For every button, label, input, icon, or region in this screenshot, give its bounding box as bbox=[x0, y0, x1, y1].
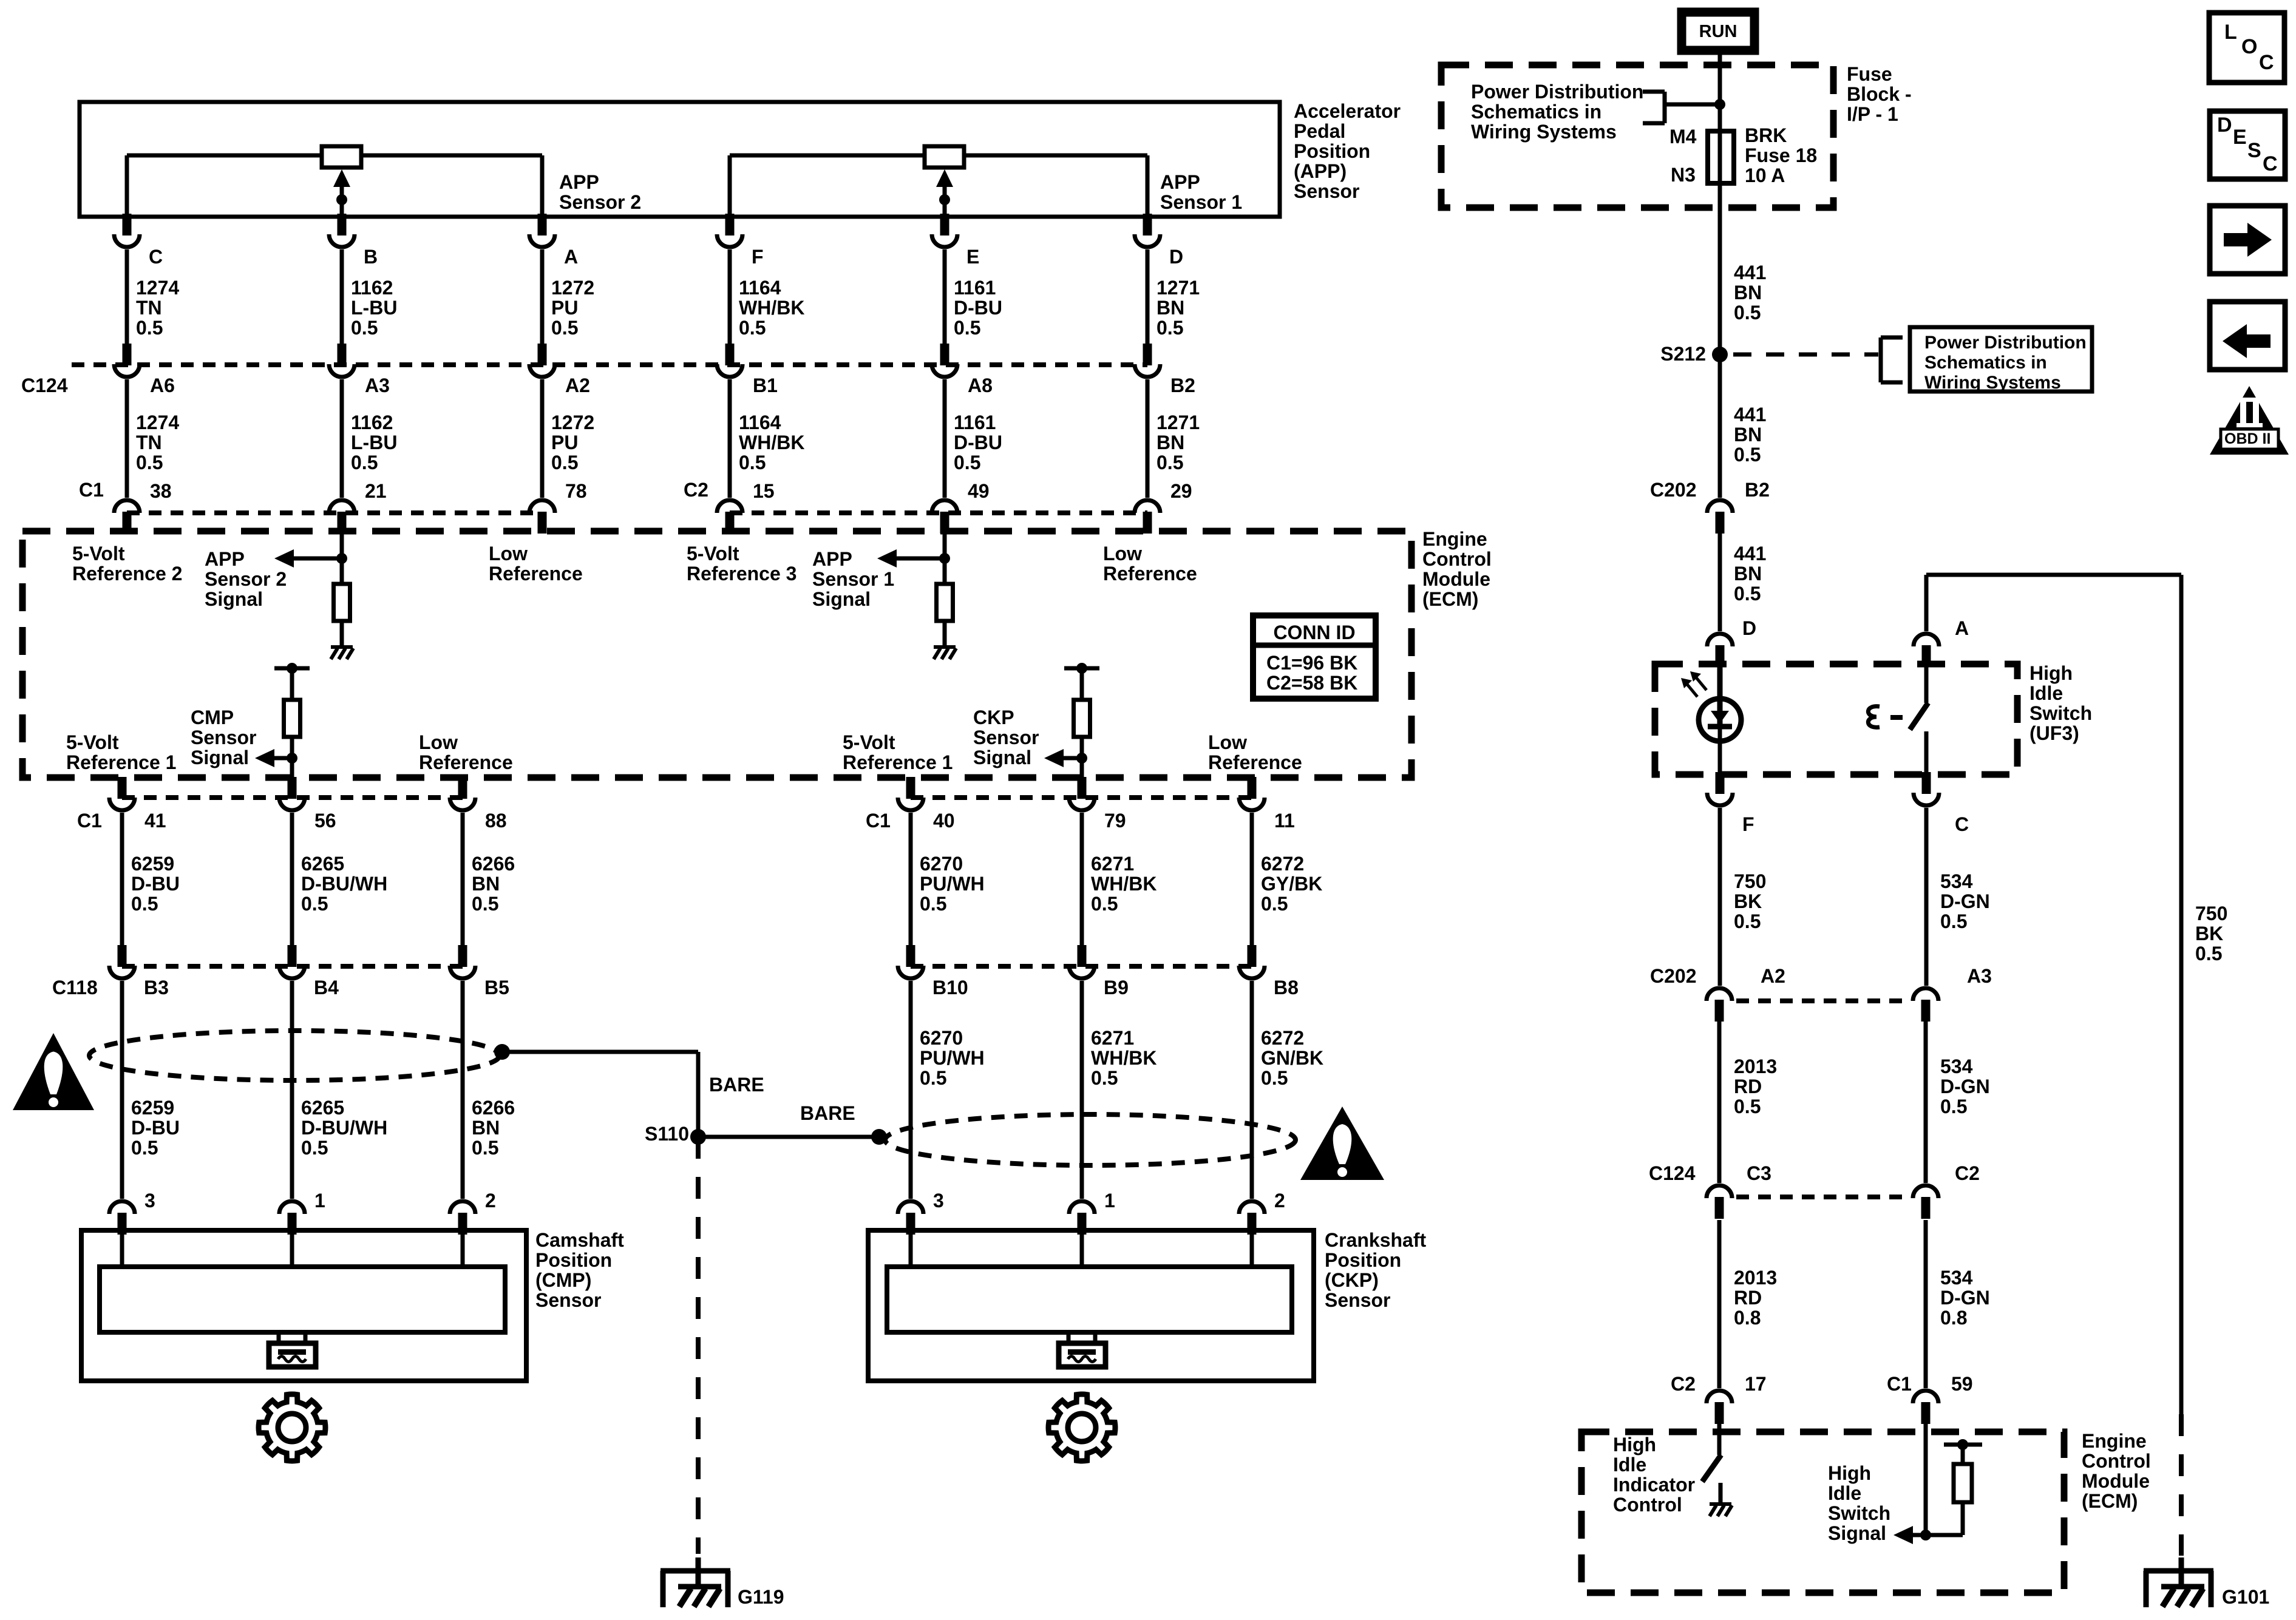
svg-text:49: 49 bbox=[968, 480, 990, 502]
connector C124 pin A3 bbox=[338, 344, 347, 365]
svg-text:21: 21 bbox=[365, 480, 387, 502]
svg-text:29: 29 bbox=[1170, 480, 1192, 502]
svg-text:D-GN: D-GN bbox=[1940, 1076, 1990, 1097]
wire bbox=[120, 1230, 124, 1267]
svg-text:B9: B9 bbox=[1104, 977, 1129, 998]
svg-text:GN/BK: GN/BK bbox=[1261, 1047, 1323, 1069]
connector APP pin D bbox=[1143, 215, 1152, 228]
wire bbox=[461, 813, 465, 945]
svg-text:C: C bbox=[2263, 152, 2278, 175]
connector C1/C2 pin 49 bbox=[940, 512, 949, 534]
connector APP pin C bbox=[123, 215, 132, 228]
svg-text:1164: 1164 bbox=[739, 412, 781, 433]
connector high idle switch pin D bbox=[1716, 645, 1725, 667]
connector CKP pin 1 bbox=[1078, 1213, 1087, 1235]
svg-text:5-Volt: 5-Volt bbox=[687, 543, 739, 564]
svg-text:D-GN: D-GN bbox=[1940, 890, 1990, 912]
svg-text:1162: 1162 bbox=[351, 412, 393, 433]
svg-text:F: F bbox=[1742, 813, 1754, 835]
svg-text:GY/BK: GY/BK bbox=[1261, 873, 1322, 895]
wire bbox=[461, 1230, 465, 1267]
svg-text:Crankshaft: Crankshaft bbox=[1325, 1229, 1427, 1251]
wire bbox=[290, 981, 294, 1199]
svg-text:0.8: 0.8 bbox=[1940, 1307, 1967, 1329]
wire bbox=[1146, 249, 1150, 344]
svg-text:1271: 1271 bbox=[1156, 412, 1200, 433]
wire 750 BK to G101 bbox=[2179, 575, 2184, 1414]
wire bbox=[1924, 1414, 1928, 1535]
svg-text:WH/BK: WH/BK bbox=[739, 432, 804, 453]
bracket bbox=[1879, 337, 1883, 382]
svg-text:PU: PU bbox=[551, 297, 578, 319]
connector C124 pin B1 bbox=[725, 344, 735, 365]
high idle switch signal pull-up bbox=[1944, 1443, 1982, 1447]
svg-text:0.5: 0.5 bbox=[1734, 1096, 1761, 1117]
wire bbox=[1926, 573, 2181, 577]
wire bbox=[1718, 808, 1722, 986]
svg-text:3: 3 bbox=[144, 1190, 155, 1212]
svg-text:1274: 1274 bbox=[136, 412, 179, 433]
connector line C202 bbox=[1736, 998, 1909, 1003]
svg-text:BN: BN bbox=[1734, 424, 1762, 446]
svg-text:534: 534 bbox=[1940, 1056, 1973, 1077]
connector line C118 (CKP) bbox=[911, 964, 1252, 969]
svg-text:Idle: Idle bbox=[1828, 1482, 1861, 1504]
svg-text:TN: TN bbox=[136, 432, 162, 453]
svg-text:A8: A8 bbox=[968, 374, 993, 396]
svg-text:C202: C202 bbox=[1650, 965, 1697, 987]
svg-text:1: 1 bbox=[1104, 1190, 1115, 1212]
connector C118 pin B8 bbox=[1248, 945, 1257, 967]
svg-text:(APP): (APP) bbox=[1294, 160, 1347, 182]
svg-text:3: 3 bbox=[933, 1190, 944, 1212]
fuse BRK Fuse 18 10A bbox=[1708, 131, 1734, 183]
ground bbox=[934, 645, 956, 649]
svg-text:B3: B3 bbox=[144, 977, 169, 998]
svg-text:A: A bbox=[564, 246, 578, 268]
svg-text:WH/BK: WH/BK bbox=[1091, 873, 1156, 895]
LED arrows bbox=[1681, 678, 1692, 688]
svg-text:750: 750 bbox=[1734, 870, 1766, 892]
svg-text:Signal: Signal bbox=[812, 588, 871, 610]
wire bbox=[290, 813, 294, 945]
svg-text:6270: 6270 bbox=[920, 853, 963, 875]
svg-text:1161: 1161 bbox=[954, 412, 996, 433]
CMP sensor signal arrow bbox=[255, 749, 274, 767]
svg-text:Control: Control bbox=[1422, 548, 1492, 570]
svg-text:G119: G119 bbox=[738, 1586, 784, 1608]
svg-text:B8: B8 bbox=[1274, 977, 1299, 998]
svg-text:E: E bbox=[966, 246, 979, 268]
wire bbox=[1717, 1220, 1722, 1388]
svg-text:S: S bbox=[2247, 139, 2261, 162]
connector APP pin E bbox=[940, 215, 949, 228]
resistor bbox=[1954, 1464, 1972, 1502]
connector C1/C2 pin 15 bbox=[725, 512, 735, 534]
svg-text:38: 38 bbox=[150, 480, 172, 502]
svg-text:Position: Position bbox=[1325, 1249, 1401, 1271]
svg-text:1272: 1272 bbox=[551, 277, 594, 299]
svg-text:Module: Module bbox=[1422, 568, 1490, 590]
svg-text:1164: 1164 bbox=[739, 277, 781, 299]
svg-text:Power Distribution: Power Distribution bbox=[1471, 81, 1643, 103]
svg-text:F: F bbox=[752, 246, 764, 268]
icon DESC bbox=[2210, 111, 2285, 179]
svg-text:0.5: 0.5 bbox=[551, 317, 578, 339]
svg-text:Indicator: Indicator bbox=[1613, 1474, 1695, 1496]
wire bbox=[1665, 103, 1720, 107]
connector CKP pin 3 bbox=[906, 1213, 915, 1235]
svg-text:Low: Low bbox=[489, 543, 528, 564]
svg-text:17: 17 bbox=[1745, 1373, 1767, 1395]
svg-text:TN: TN bbox=[136, 297, 162, 319]
camshaft position sensor box bbox=[81, 1230, 526, 1381]
svg-text:BARE: BARE bbox=[709, 1074, 764, 1096]
wire bbox=[1924, 1022, 1928, 1183]
svg-text:Signal: Signal bbox=[191, 747, 249, 768]
svg-text:C: C bbox=[1955, 813, 1969, 835]
svg-text:C2=58 BK: C2=58 BK bbox=[1266, 672, 1357, 694]
wire bbox=[698, 1135, 879, 1139]
svg-text:6265: 6265 bbox=[301, 853, 344, 875]
svg-text:0.5: 0.5 bbox=[131, 1137, 158, 1159]
svg-text:PU: PU bbox=[551, 432, 578, 453]
wire (dashed drop to G119) bbox=[696, 1137, 701, 1554]
svg-text:0.5: 0.5 bbox=[1156, 317, 1183, 339]
connector C118 pin B4 bbox=[288, 945, 297, 967]
svg-text:Schematics in: Schematics in bbox=[1471, 101, 1601, 123]
wire bbox=[125, 379, 129, 498]
svg-text:Sensor: Sensor bbox=[191, 727, 256, 748]
svg-text:Reference: Reference bbox=[1208, 751, 1302, 773]
connector C1/C2 pin 78 bbox=[538, 512, 547, 534]
shield ellipse (CMP) bbox=[89, 1031, 500, 1080]
connector CKP pin 2 bbox=[1248, 1213, 1257, 1235]
wire bbox=[340, 531, 344, 584]
svg-text:Engine: Engine bbox=[2082, 1430, 2147, 1452]
ground bbox=[1719, 1483, 1723, 1503]
svg-text:Sensor 2: Sensor 2 bbox=[205, 568, 287, 590]
svg-text:40: 40 bbox=[933, 810, 955, 832]
svg-text:0.5: 0.5 bbox=[954, 452, 980, 473]
resistor bbox=[937, 584, 953, 621]
warning symbol bbox=[1300, 1107, 1384, 1180]
svg-text:0.5: 0.5 bbox=[1734, 910, 1761, 932]
wire bbox=[1718, 664, 1722, 699]
svg-text:L-BU: L-BU bbox=[351, 432, 397, 453]
svg-text:B2: B2 bbox=[1170, 374, 1195, 396]
svg-text:0.5: 0.5 bbox=[954, 317, 980, 339]
svg-text:534: 534 bbox=[1940, 1267, 1973, 1289]
svg-text:O: O bbox=[2241, 35, 2257, 58]
fuse block box bbox=[1441, 65, 1833, 208]
svg-text:6272: 6272 bbox=[1261, 853, 1304, 875]
svg-text:D: D bbox=[1742, 617, 1756, 639]
wire bbox=[1718, 354, 1722, 498]
wire bbox=[1250, 1230, 1254, 1267]
svg-text:0.5: 0.5 bbox=[920, 893, 946, 915]
connector APP pin B bbox=[338, 215, 347, 228]
svg-text:6266: 6266 bbox=[472, 853, 515, 875]
node fuse feed bbox=[1714, 99, 1725, 110]
svg-text:1274: 1274 bbox=[136, 277, 179, 299]
connector C1/C2 pin 21 bbox=[338, 512, 347, 534]
svg-text:Reference: Reference bbox=[419, 751, 513, 773]
wire bbox=[1717, 1022, 1722, 1183]
resistor bbox=[1074, 700, 1090, 737]
svg-text:RUN: RUN bbox=[1699, 22, 1737, 41]
icon arrow right bbox=[2210, 206, 2285, 274]
connector ECM pin 59 bbox=[1921, 1402, 1931, 1424]
svg-text:(CMP): (CMP) bbox=[535, 1269, 591, 1291]
svg-text:0.5: 0.5 bbox=[1734, 444, 1761, 466]
connector C124 pin C2 bbox=[1921, 1197, 1931, 1219]
svg-text:G101: G101 bbox=[2222, 1586, 2269, 1608]
svg-text:41: 41 bbox=[144, 810, 166, 832]
svg-text:C1: C1 bbox=[79, 479, 104, 501]
svg-text:Reference 2: Reference 2 bbox=[72, 563, 182, 585]
connector C118 pin B3 bbox=[118, 945, 127, 967]
connector C124 pin A6 bbox=[123, 344, 132, 365]
svg-text:10 A: 10 A bbox=[1745, 164, 1785, 186]
svg-text:CMP: CMP bbox=[191, 707, 234, 728]
connector line C118 (CMP) bbox=[122, 964, 463, 969]
svg-text:D-BU: D-BU bbox=[954, 297, 1002, 319]
wire bbox=[1718, 55, 1722, 354]
wire BARE bbox=[502, 1050, 698, 1054]
connector APP pin A bbox=[538, 215, 547, 228]
svg-text:APP: APP bbox=[1160, 171, 1200, 193]
svg-text:D-BU: D-BU bbox=[131, 1117, 180, 1139]
wire bbox=[909, 813, 913, 945]
connector high idle switch pin F bbox=[1716, 772, 1725, 781]
svg-text:D-BU/WH: D-BU/WH bbox=[301, 1117, 387, 1139]
svg-text:2013: 2013 bbox=[1734, 1267, 1777, 1289]
CMP pickup element bbox=[277, 1332, 281, 1343]
connector line C1 (CKP) bbox=[911, 795, 1252, 800]
icon arrow left bbox=[2210, 302, 2285, 370]
svg-text:0.5: 0.5 bbox=[1734, 583, 1761, 605]
svg-text:D-BU/WH: D-BU/WH bbox=[301, 873, 387, 895]
svg-text:1272: 1272 bbox=[551, 412, 594, 433]
svg-text:0.5: 0.5 bbox=[739, 452, 766, 473]
svg-text:A2: A2 bbox=[1761, 965, 1785, 987]
connector C202 pin A3 bbox=[1921, 1000, 1931, 1022]
high idle switch signal arrow bbox=[1894, 1526, 1913, 1544]
svg-text:WH/BK: WH/BK bbox=[1091, 1047, 1156, 1069]
svg-text:0.5: 0.5 bbox=[1261, 893, 1288, 915]
svg-text:Sensor: Sensor bbox=[1294, 180, 1359, 202]
connector C1 pin 88 bbox=[458, 777, 467, 799]
svg-text:I/P - 1: I/P - 1 bbox=[1847, 103, 1898, 125]
svg-text:6271: 6271 bbox=[1091, 853, 1134, 875]
connector line C1 (CMP) bbox=[122, 795, 463, 800]
svg-text:6272: 6272 bbox=[1261, 1027, 1304, 1049]
connector high idle switch pin C bbox=[1922, 772, 1931, 781]
svg-text:0.5: 0.5 bbox=[1734, 302, 1761, 324]
svg-text:BN: BN bbox=[1734, 282, 1762, 303]
connector C1 pin 56 bbox=[288, 777, 297, 799]
svg-text:D: D bbox=[2217, 114, 2232, 137]
svg-text:A3: A3 bbox=[365, 374, 390, 396]
svg-text:Low: Low bbox=[1208, 731, 1247, 753]
svg-text:5-Volt: 5-Volt bbox=[72, 543, 125, 564]
connector high idle switch pin A bbox=[1922, 645, 1931, 667]
svg-text:88: 88 bbox=[485, 810, 507, 832]
wire bbox=[728, 249, 732, 344]
node S110 bbox=[690, 1129, 706, 1145]
svg-text:2013: 2013 bbox=[1734, 1056, 1777, 1077]
svg-text:B2: B2 bbox=[1745, 479, 1770, 501]
resistor bbox=[284, 700, 301, 737]
svg-text:Switch: Switch bbox=[1828, 1502, 1890, 1524]
connector line C2 bbox=[730, 510, 1147, 515]
svg-text:6266: 6266 bbox=[472, 1097, 515, 1119]
connector C1 pin 40 bbox=[906, 777, 915, 799]
svg-text:0.8: 0.8 bbox=[1734, 1307, 1761, 1329]
svg-text:C2: C2 bbox=[1671, 1373, 1696, 1395]
svg-text:0.5: 0.5 bbox=[551, 452, 578, 473]
svg-text:59: 59 bbox=[1951, 1373, 1973, 1395]
high idle switch box bbox=[1655, 664, 2017, 774]
svg-text:1162: 1162 bbox=[351, 277, 393, 299]
svg-text:Switch: Switch bbox=[2029, 702, 2092, 724]
svg-text:(ECM): (ECM) bbox=[2082, 1490, 2138, 1512]
CMP pull-up bar bbox=[274, 666, 310, 671]
svg-text:C: C bbox=[2259, 51, 2274, 74]
svg-text:(ECM): (ECM) bbox=[1422, 588, 1478, 610]
connector C1 pin 41 bbox=[118, 777, 127, 799]
svg-text:D-BU: D-BU bbox=[954, 432, 1002, 453]
svg-text:PU/WH: PU/WH bbox=[920, 873, 985, 895]
svg-text:56: 56 bbox=[314, 810, 336, 832]
crankshaft position sensor inner box bbox=[887, 1267, 1292, 1332]
wire bbox=[340, 379, 344, 498]
svg-text:M4: M4 bbox=[1669, 126, 1697, 147]
svg-text:0.5: 0.5 bbox=[2195, 943, 2222, 964]
resistor bbox=[334, 584, 350, 621]
svg-text:0.5: 0.5 bbox=[472, 893, 498, 915]
ground G101 bbox=[2144, 1568, 2213, 1574]
svg-text:0.5: 0.5 bbox=[351, 452, 378, 473]
svg-text:Block -: Block - bbox=[1847, 83, 1912, 105]
APP sensor 1 potentiometer track bbox=[730, 154, 1147, 158]
svg-text:Engine: Engine bbox=[1422, 528, 1487, 550]
svg-text:1: 1 bbox=[314, 1190, 325, 1212]
svg-text:High: High bbox=[2029, 662, 2073, 684]
svg-text:Position: Position bbox=[535, 1249, 612, 1271]
svg-text:Fuse: Fuse bbox=[1847, 63, 1892, 85]
CKP pickup element bbox=[1067, 1332, 1071, 1343]
svg-text:0.5: 0.5 bbox=[1940, 910, 1967, 932]
svg-text:C1: C1 bbox=[866, 810, 891, 832]
svg-text:A2: A2 bbox=[565, 374, 590, 396]
wire bbox=[1080, 668, 1084, 700]
svg-text:Control: Control bbox=[2082, 1450, 2151, 1472]
svg-text:A6: A6 bbox=[150, 374, 175, 396]
svg-text:(CKP): (CKP) bbox=[1325, 1269, 1379, 1291]
svg-text:Schematics in: Schematics in bbox=[1924, 353, 2047, 373]
svg-text:Accelerator: Accelerator bbox=[1294, 100, 1401, 122]
svg-text:Fuse 18: Fuse 18 bbox=[1745, 144, 1817, 166]
svg-text:B: B bbox=[364, 246, 378, 268]
svg-text:A3: A3 bbox=[1967, 965, 1992, 987]
APP sensor 1 wiper arrow bbox=[936, 169, 953, 187]
high idle indicator LED bbox=[1699, 699, 1741, 741]
svg-text:0.5: 0.5 bbox=[1156, 452, 1183, 473]
svg-text:C118: C118 bbox=[52, 977, 98, 998]
wire bbox=[943, 249, 947, 344]
svg-text:6265: 6265 bbox=[301, 1097, 344, 1119]
svg-text:0.5: 0.5 bbox=[1261, 1067, 1288, 1089]
APP sensor 2 signal arrow bbox=[274, 549, 294, 568]
wire bbox=[290, 668, 294, 700]
wire bbox=[461, 981, 465, 1199]
svg-text:Idle: Idle bbox=[2029, 682, 2063, 704]
CKP pull-up bar bbox=[1064, 666, 1099, 671]
svg-text:Pedal: Pedal bbox=[1294, 120, 1345, 142]
connector C118 pin B10 bbox=[906, 945, 915, 967]
svg-text:0.5: 0.5 bbox=[136, 317, 163, 339]
svg-text:441: 441 bbox=[1734, 404, 1766, 425]
wire bbox=[1080, 737, 1084, 778]
svg-text:CONN ID: CONN ID bbox=[1273, 622, 1355, 643]
APP sensor 1 contact box bbox=[925, 146, 964, 168]
svg-text:0.5: 0.5 bbox=[472, 1137, 498, 1159]
svg-text:Power Distribution: Power Distribution bbox=[1924, 333, 2087, 353]
svg-text:1161: 1161 bbox=[954, 277, 996, 299]
CKP sensor signal arrow bbox=[1044, 749, 1064, 767]
svg-text:Reference: Reference bbox=[489, 563, 583, 585]
svg-text:BN: BN bbox=[1156, 432, 1184, 453]
svg-text:1271: 1271 bbox=[1156, 277, 1200, 299]
CKP reluctor gear bbox=[1048, 1394, 1115, 1461]
wire bbox=[120, 813, 124, 945]
APP sensor 2 contact box bbox=[322, 146, 361, 168]
svg-text:OBD II: OBD II bbox=[2224, 430, 2271, 447]
svg-text:BN: BN bbox=[1734, 563, 1762, 585]
wire bbox=[909, 981, 913, 1199]
svg-text:0.5: 0.5 bbox=[131, 893, 158, 915]
svg-text:5-Volt: 5-Volt bbox=[66, 731, 119, 753]
high idle switch contact bbox=[1924, 655, 1929, 703]
wire bbox=[1718, 534, 1722, 631]
engine control module box bbox=[22, 531, 1411, 778]
svg-text:750: 750 bbox=[2195, 903, 2227, 924]
svg-text:Low: Low bbox=[419, 731, 458, 753]
svg-text:APP: APP bbox=[812, 548, 852, 570]
svg-text:Sensor 1: Sensor 1 bbox=[812, 568, 894, 590]
svg-text:15: 15 bbox=[753, 480, 775, 502]
icon LOC bbox=[2209, 13, 2284, 83]
wire bbox=[943, 531, 947, 584]
connector C1/C2 pin 29 bbox=[1143, 512, 1152, 534]
svg-text:Sensor 1: Sensor 1 bbox=[1160, 191, 1242, 213]
wire bbox=[1961, 1502, 1965, 1535]
svg-text:Low: Low bbox=[1103, 543, 1142, 564]
connector C1 pin 79 bbox=[1078, 777, 1087, 799]
connector C124 pin B2 bbox=[1143, 344, 1152, 365]
APP sensor 1 signal arrow bbox=[877, 549, 897, 568]
svg-text:C124: C124 bbox=[21, 374, 68, 396]
svg-text:Reference 1: Reference 1 bbox=[843, 751, 953, 773]
wire (dashed) bbox=[1733, 353, 1878, 357]
svg-text:6259: 6259 bbox=[131, 1097, 174, 1119]
svg-text:BN: BN bbox=[472, 1117, 500, 1139]
connector APP pin F bbox=[725, 215, 735, 228]
connector C202 pin B2 bbox=[1716, 512, 1725, 534]
svg-text:6270: 6270 bbox=[920, 1027, 963, 1049]
